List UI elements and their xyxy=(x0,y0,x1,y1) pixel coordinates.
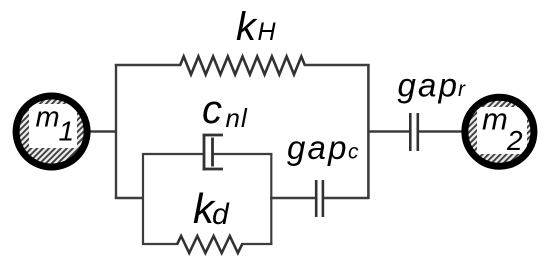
damper c_nl piston xyxy=(211,138,214,167)
inner box bottom edge right segment xyxy=(241,243,272,245)
damper c_nl cup left wall xyxy=(203,134,206,171)
wire top-left (rail to spring kH) xyxy=(115,64,181,66)
right rail (vertical) xyxy=(367,64,370,199)
svg-text:r: r xyxy=(458,78,466,101)
left rail (vertical) xyxy=(115,64,117,199)
svg-text:nl: nl xyxy=(226,103,248,133)
wire inner box to gap_c xyxy=(270,197,315,199)
svg-text:m: m xyxy=(482,102,508,137)
gap_r right bar xyxy=(416,113,419,151)
inner box left edge xyxy=(142,153,144,245)
damper c_nl cup bottom arm xyxy=(203,168,223,171)
svg-text:c: c xyxy=(202,88,222,132)
spring kH xyxy=(180,57,305,75)
wire gap_c to right rail xyxy=(324,197,369,199)
inner box top edge right segment xyxy=(213,153,273,155)
inner box bottom edge left segment xyxy=(142,243,178,245)
svg-text:gap: gap xyxy=(398,67,460,104)
inner box right edge xyxy=(270,153,272,245)
gap_r left bar xyxy=(409,113,412,151)
svg-text:H: H xyxy=(258,18,277,46)
wire right rail to gap_r xyxy=(368,130,409,132)
svg-text:c: c xyxy=(348,141,359,164)
gap_c right bar xyxy=(322,180,325,217)
gap_c left bar xyxy=(315,180,318,217)
svg-text:d: d xyxy=(212,198,230,231)
wire gap_r to m2 xyxy=(419,130,465,132)
spring k_d xyxy=(177,236,242,253)
mass m1 hatched circle xyxy=(16,96,87,167)
inner box top edge left segment xyxy=(142,153,204,155)
svg-text:2: 2 xyxy=(506,125,523,156)
wire bottom-left (rail to inner box) xyxy=(115,197,144,199)
mass m2 hatched circle xyxy=(465,97,534,166)
svg-text:k: k xyxy=(236,5,258,49)
damper c_nl cup top arm xyxy=(203,134,223,137)
svg-text:gap: gap xyxy=(287,129,349,166)
wire from m1 to left rail xyxy=(88,130,117,132)
wire top-right (spring kH to right rail) xyxy=(304,64,370,66)
svg-text:m: m xyxy=(36,102,60,134)
svg-text:1: 1 xyxy=(59,116,75,147)
